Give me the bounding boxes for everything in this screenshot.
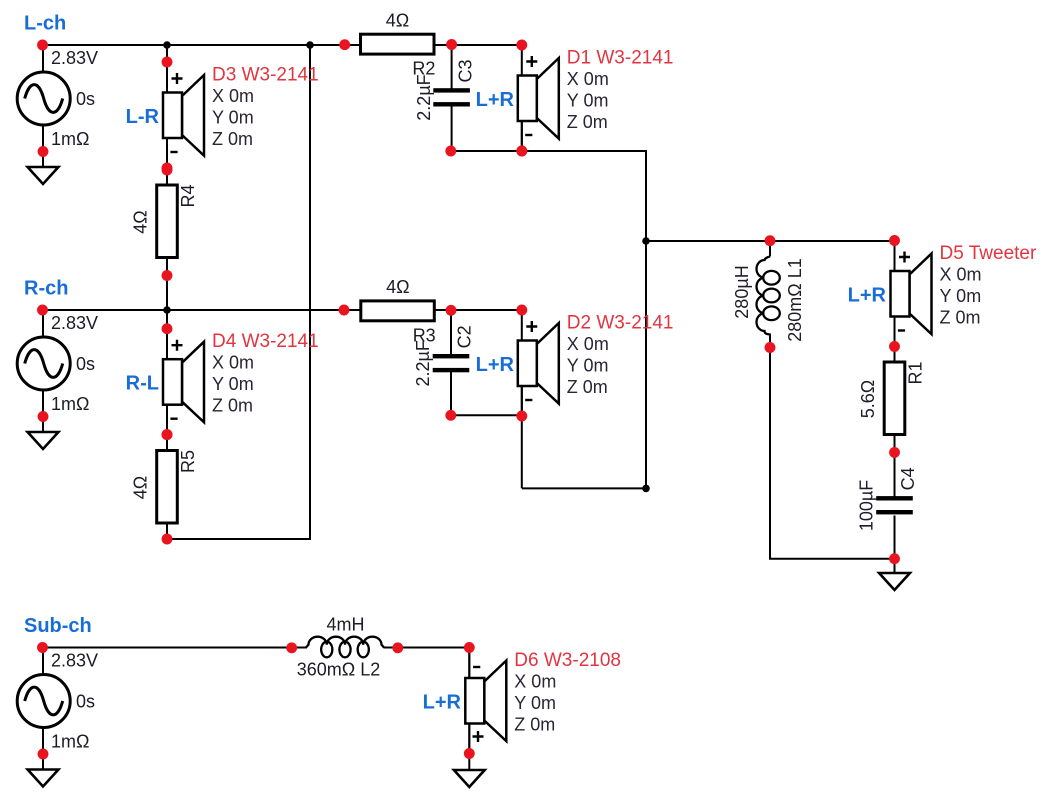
D5 Z position <box>940 307 981 327</box>
D2 X position <box>567 334 609 354</box>
R3 left terminal dot <box>339 305 350 316</box>
svg-text:C4: C4 <box>898 467 918 490</box>
V1 (left channel) terminal dot top <box>37 40 48 51</box>
wire D5 minus to R1 <box>894 317 896 363</box>
svg-text:2.83V: 2.83V <box>51 48 98 68</box>
svg-text:L-ch: L-ch <box>24 13 66 35</box>
C4 bottom terminal dot <box>889 553 900 564</box>
svg-text:Y 0m: Y 0m <box>567 90 609 110</box>
R2 right / C3 junction dot <box>446 39 457 50</box>
svg-text:1mΩ: 1mΩ <box>51 394 89 414</box>
D2 Z position <box>567 377 608 397</box>
V3 (subwoofer channel) value 2.83V <box>51 651 98 671</box>
resistor R1 <box>884 362 905 435</box>
R3 right / C2 junction dot <box>446 305 457 316</box>
voltage source V1 (left channel) <box>17 45 70 168</box>
V3 (subwoofer channel) terminal dot top <box>37 642 48 653</box>
svg-text:0s: 0s <box>76 692 95 712</box>
R4 bottom terminal dot <box>162 270 173 281</box>
wire C2 bottom drop <box>450 372 452 416</box>
R3 designator label <box>413 325 436 345</box>
R3 value 4&#937; <box>386 277 409 297</box>
wire C4 bottom to ground <box>894 516 896 574</box>
node label L+R at D6 <box>423 692 462 714</box>
D6 title D6 W3-2108 <box>514 650 621 671</box>
wire C3 bottom drop <box>451 106 453 151</box>
wire C2 bottom to D2 minus <box>451 414 522 416</box>
L1 value 280uH <box>732 265 752 318</box>
wire D6 top lead <box>468 648 470 680</box>
svg-text:C2: C2 <box>455 325 475 348</box>
svg-text:D3 W3-2141: D3 W3-2141 <box>212 65 319 86</box>
svg-text:4Ω: 4Ω <box>130 210 150 233</box>
wire R1 bottom to C4 top <box>894 434 896 497</box>
node label L+R at D2 <box>476 354 515 376</box>
svg-text:0s: 0s <box>76 354 95 374</box>
node label L+R at D5 <box>848 285 887 307</box>
loudspeaker driver D2 <box>518 310 559 416</box>
wire L1 bottom route to C4 bottom <box>770 334 895 559</box>
C2 bottom terminal dot <box>445 410 456 421</box>
node label L+R at D1 <box>476 89 515 111</box>
C3 designator label <box>455 59 475 82</box>
capacitor C3 <box>433 88 470 106</box>
D1 Y position <box>567 90 609 110</box>
loudspeaker driver D3 <box>163 62 204 168</box>
svg-text:C3: C3 <box>455 59 475 82</box>
D3 title D3 W3-2141 <box>212 65 319 86</box>
D3 Z position <box>212 129 253 149</box>
svg-text:X 0m: X 0m <box>212 353 254 373</box>
svg-text:100µF: 100µF <box>857 480 877 531</box>
L2 right terminal dot <box>392 642 403 653</box>
capacitor C4 <box>876 496 913 514</box>
svg-text:D2 W3-2141: D2 W3-2141 <box>567 313 674 334</box>
svg-text:Y 0m: Y 0m <box>212 107 254 127</box>
svg-text:4Ω: 4Ω <box>386 10 409 30</box>
C2 value 2.2&#181;F <box>413 340 433 386</box>
svg-text:280mΩ L1: 280mΩ L1 <box>785 258 805 342</box>
svg-text:Y 0m: Y 0m <box>567 355 609 375</box>
wire node column to tweeter rail y=241 <box>646 240 895 242</box>
junction node column to tweeter rail <box>642 237 650 245</box>
L2 value 4mH <box>326 615 364 635</box>
V3 (subwoofer channel) terminal dot bottom <box>38 749 49 760</box>
V2 (right channel) delay 0s <box>76 354 95 374</box>
R4 designator label <box>178 184 198 207</box>
svg-text:0s: 0s <box>76 89 95 109</box>
wire left chain x=167 (D3/R4/D4/R5) <box>166 45 168 539</box>
V3 (subwoofer channel) delay 0s <box>76 692 95 712</box>
D5 title D5 Tweeter <box>940 243 1037 264</box>
wire L-ch bus <box>43 44 522 46</box>
L1 bottom terminal dot <box>765 342 776 353</box>
D4 X position <box>212 353 254 373</box>
V2 (right channel) terminal dot bottom <box>38 411 49 422</box>
net label Sub-ch <box>24 615 92 637</box>
wire D2 minus down to node column <box>521 387 523 489</box>
svg-text:X 0m: X 0m <box>514 672 556 692</box>
ground at C4 <box>879 573 910 590</box>
junction R4/D4 on R-ch bus <box>163 306 171 314</box>
ground V2 (right channel) <box>28 432 59 449</box>
R2 designator label <box>412 59 435 79</box>
wire L2 to D6 <box>384 647 470 649</box>
svg-text:1mΩ: 1mΩ <box>51 129 89 149</box>
resistor R3 <box>361 301 435 321</box>
L1 top terminal dot <box>765 235 776 246</box>
C2 designator label <box>455 325 475 348</box>
svg-text:Y 0m: Y 0m <box>940 286 982 306</box>
wire C3/D1 minus rail y=151 to node column <box>451 151 646 488</box>
svg-text:Y 0m: Y 0m <box>514 693 556 713</box>
R2 left terminal dot <box>339 39 350 50</box>
R5 value 4&#937; <box>130 476 150 499</box>
svg-text:X 0m: X 0m <box>567 69 609 89</box>
R4 top terminal dot (D3 minus node) <box>162 165 173 176</box>
C4 value 100&#181;F <box>857 480 877 531</box>
svg-text:D1 W3-2141: D1 W3-2141 <box>567 48 674 69</box>
R1 value 5.6&#937; <box>858 380 878 418</box>
V1 (left channel) terminal dot bottom <box>38 146 49 157</box>
svg-text:360mΩ L2: 360mΩ L2 <box>297 660 381 680</box>
resistor R4 <box>157 185 178 258</box>
svg-text:4Ω: 4Ω <box>130 476 150 499</box>
D6 X position <box>514 672 556 692</box>
node label R-L at D4 <box>126 373 159 395</box>
V2 (right channel) terminal dot top <box>37 305 48 316</box>
D2 terminal dot top <box>516 305 527 316</box>
D3 X position <box>212 86 254 106</box>
svg-text:5.6Ω: 5.6Ω <box>858 380 878 418</box>
R1 bottom terminal dot <box>889 447 900 458</box>
junction D3 tap on L-ch bus <box>163 41 171 49</box>
D3 Y position <box>212 107 254 127</box>
L1 label 280mOhm L1 <box>785 258 805 342</box>
svg-text:L+R: L+R <box>476 354 515 376</box>
svg-text:R-L: R-L <box>126 373 159 395</box>
V1 (left channel) value 2.83V <box>51 48 98 68</box>
inductor L2 <box>306 637 384 658</box>
D2 title D2 W3-2141 <box>567 313 674 334</box>
V2 (right channel) value 2.83V <box>51 313 98 333</box>
D1 terminal dot bottom <box>516 146 527 157</box>
V1 (left channel) delay 0s <box>76 89 95 109</box>
D4 minus / R5 top terminal dot <box>162 429 173 440</box>
resistor R2 <box>361 34 435 54</box>
svg-text:Z 0m: Z 0m <box>514 714 555 734</box>
L2 left terminal dot <box>286 642 297 653</box>
D4 Z position <box>212 396 253 416</box>
svg-text:2.83V: 2.83V <box>51 651 98 671</box>
loudspeaker driver D6 <box>465 648 506 754</box>
svg-text:R1: R1 <box>905 361 925 384</box>
loudspeaker driver D1 <box>518 45 559 151</box>
svg-text:2.2µF: 2.2µF <box>414 74 434 120</box>
voltage source V3 (subwoofer channel) <box>17 648 70 771</box>
wire R-ch bus <box>43 309 522 311</box>
loudspeaker driver D4 <box>163 329 204 435</box>
ground at D6 <box>454 770 485 787</box>
svg-text:X 0m: X 0m <box>940 265 982 285</box>
D1 Z position <box>567 112 608 132</box>
D2 Y position <box>567 355 609 375</box>
svg-text:1mΩ: 1mΩ <box>51 732 89 752</box>
voltage source V2 (right channel) <box>17 310 70 433</box>
R1 designator label <box>905 361 925 384</box>
L2 label 360mOhm L2 <box>297 660 381 680</box>
junction node column / D2 minus <box>642 485 650 493</box>
svg-text:4Ω: 4Ω <box>386 277 409 297</box>
svg-text:Sub-ch: Sub-ch <box>24 615 92 637</box>
svg-text:280µH: 280µH <box>732 265 752 318</box>
V1 (left channel) impedance 1m&#937; <box>51 129 89 149</box>
C3 value 2.2&#181;F <box>414 74 434 120</box>
wire D6 bottom to ground <box>468 725 470 771</box>
svg-text:L+R: L+R <box>848 285 887 307</box>
R5 bottom terminal dot <box>162 534 173 545</box>
capacitor C2 <box>433 354 470 372</box>
wire L1 top lead <box>769 241 771 257</box>
svg-text:Z 0m: Z 0m <box>212 396 253 416</box>
R5 designator label <box>178 450 198 473</box>
svg-text:L+R: L+R <box>423 692 462 714</box>
svg-text:Z 0m: Z 0m <box>567 377 608 397</box>
V2 (right channel) impedance 1m&#937; <box>51 394 89 414</box>
D6 Y position <box>514 693 556 713</box>
wire D5 plus lead <box>894 241 896 271</box>
R4 value 4&#937; <box>130 210 150 233</box>
net label R-ch <box>24 278 68 300</box>
svg-text:D6 W3-2108: D6 W3-2108 <box>514 650 621 671</box>
C3 bottom terminal dot <box>445 146 456 157</box>
svg-text:D4 W3-2141: D4 W3-2141 <box>212 331 319 352</box>
svg-text:X 0m: X 0m <box>212 86 254 106</box>
ground V3 (subwoofer channel) <box>28 770 59 787</box>
D6 terminal dot top <box>464 642 475 653</box>
svg-text:2.83V: 2.83V <box>51 313 98 333</box>
D6 Z position <box>514 714 555 734</box>
D5 terminal dot top <box>889 235 900 246</box>
node label L-R at D3 <box>126 106 160 128</box>
D1 minus terminal dot on rail <box>516 146 527 157</box>
ground V1 (left channel) <box>28 167 59 184</box>
D2 terminal dot bottom <box>516 411 527 422</box>
svg-text:R-ch: R-ch <box>24 278 68 300</box>
svg-text:L+R: L+R <box>476 89 515 111</box>
junction return wire on L-ch bus <box>306 41 314 49</box>
D1 X position <box>567 69 609 89</box>
D4 Y position <box>212 374 254 394</box>
loudspeaker driver D5 <box>891 241 932 347</box>
wire R5 bottom return to L-ch bus <box>167 45 310 539</box>
V3 (subwoofer channel) impedance 1m&#937; <box>51 732 89 752</box>
svg-text:Z 0m: Z 0m <box>940 307 981 327</box>
D6 terminal dot bottom <box>464 748 475 759</box>
R2 value 4&#937; <box>386 10 409 30</box>
D3 terminal dot bottom <box>162 163 173 174</box>
svg-text:L-R: L-R <box>126 106 160 128</box>
wire R2 to C3 top <box>451 45 453 89</box>
net label L-ch <box>24 13 66 35</box>
D4 title D4 W3-2141 <box>212 331 319 352</box>
svg-text:Z 0m: Z 0m <box>567 112 608 132</box>
resistor R5 <box>157 451 178 524</box>
D5 Y position <box>940 286 982 306</box>
svg-text:2.2µF: 2.2µF <box>413 340 433 386</box>
wire R3 to C2 top <box>450 310 452 354</box>
svg-text:Y 0m: Y 0m <box>212 374 254 394</box>
svg-text:R4: R4 <box>178 184 198 207</box>
D3 terminal dot top <box>162 57 173 68</box>
svg-text:D5 Tweeter: D5 Tweeter <box>940 243 1037 264</box>
D1 title D1 W3-2141 <box>567 48 674 69</box>
inductor L1 <box>757 257 780 335</box>
svg-text:X 0m: X 0m <box>567 334 609 354</box>
D1 terminal dot top <box>516 40 527 51</box>
D5 terminal dot bottom <box>889 341 900 352</box>
svg-text:Z 0m: Z 0m <box>212 129 253 149</box>
C4 designator label <box>898 467 918 490</box>
wire Sub-ch bus left <box>43 647 307 649</box>
D4 terminal dot top <box>162 323 173 334</box>
svg-text:4mH: 4mH <box>326 615 364 635</box>
wire D1 minus lead <box>521 122 523 152</box>
D5 X position <box>940 265 982 285</box>
svg-text:R5: R5 <box>178 450 198 473</box>
D4 terminal dot bottom <box>162 429 173 440</box>
